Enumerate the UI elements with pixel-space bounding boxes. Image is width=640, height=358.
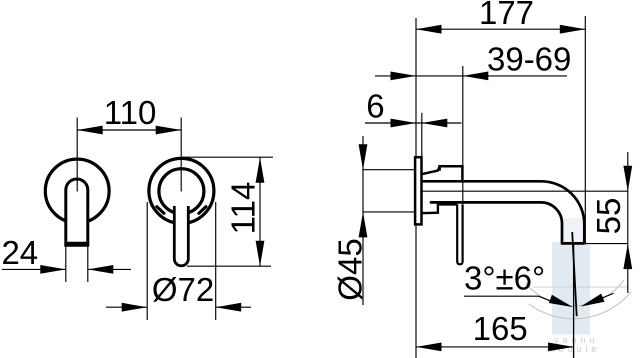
dim 165 arrow right [548,343,574,352]
watermark gray arc inner [529,292,632,319]
dim 110 arrow right [156,126,182,135]
dim 6 arrow left [391,119,417,128]
dim O45 arrow top [359,144,368,170]
centerline of left handle rosette [76,118,78,192]
spout tube bottom line [430,201,541,204]
dim 24 line right [88,268,131,270]
spout stem (front view) [174,206,188,266]
svg-text:165: 165 [473,310,528,347]
svg-text:55: 55 [590,198,627,235]
spout rosette outer circle (front view) [149,158,214,223]
extension line wall surface x416 [415,18,417,358]
spout outer bend [541,181,584,243]
extension line handle front x463 [462,66,464,204]
extension line spout outer end x585 [584,16,586,245]
dim O72 extension right [215,202,217,320]
dim 114 line [259,157,261,266]
dim 177 line [416,28,585,30]
watermark blue band (main) [552,242,590,335]
svg-text:6: 6 [366,87,384,124]
dim O45 line [362,136,364,305]
angle leader line [539,296,557,303]
dim O72 line left [106,306,147,308]
dim O72 arrow right [216,303,242,312]
dim 110 line [77,129,181,131]
dim 39-69 arrow left [391,72,417,81]
spout inner bend [541,202,562,243]
watermark gray horizontal line [533,286,629,288]
dim 24 line left [2,268,66,270]
wall plate (side view) [415,157,421,224]
dim 24 arrow left [40,265,66,274]
dim 55 extension bottom [584,243,628,245]
dim 6 line [365,122,462,124]
dim 6 arrow right [422,119,448,128]
centerline segment inside handle lever [76,180,78,192]
watermark gray arc outer [525,280,623,306]
dim O72 arrow left [122,303,148,312]
dim O72 extension left [146,202,148,320]
svg-text:24: 24 [1,234,38,271]
handle lever end cap line [66,242,88,245]
spout rosette inner circle (front view) [159,169,204,214]
dim 24 extension left [65,246,67,282]
handle lever (front view) [66,179,88,245]
dim 114 extension bottom [187,265,271,267]
watermark blue band (inside spout) [563,218,583,242]
extension line plate front x422 [421,113,423,157]
set screw tick left [157,207,164,214]
centerline of right spout rosette [180,118,182,192]
handle base slope (side view) [422,204,458,213]
spout centerline (also 55 top extension) [422,190,628,192]
angle arrow right shaft [601,293,614,298]
dim 177 arrow left [416,25,442,34]
dim 55 arrow bottom [623,244,632,270]
svg-text:110: 110 [104,94,157,131]
dim 165 arrow left [416,343,442,352]
dim 24 arrow right [88,265,114,274]
svg-text:Ø45: Ø45 [331,238,368,300]
svg-text:114: 114 [225,182,262,235]
svg-text:39-69: 39-69 [487,41,571,78]
dim 55 line [627,152,629,293]
angle arrow left [549,295,573,307]
svg-text:Ø72: Ø72 [152,271,214,308]
spout base slope (side view) [422,166,440,174]
svg-text:177: 177 [479,0,534,31]
dim 165 line [416,346,574,348]
spout collar (side view) [440,166,463,181]
dim 110 arrow left [77,126,103,135]
spout axis extension line x574 [573,244,575,358]
dim O45 extension bottom [363,211,416,213]
set screw tick right [199,207,206,214]
dim O45 extension top [363,169,416,171]
angle arrow right [581,294,605,307]
dim 24 extension right [87,246,89,282]
handle lever bar (side view) [457,204,462,264]
dim 39-69 arrow right [463,72,489,81]
tilted spout axis line 3deg [572,232,577,316]
dim O45 arrow bottom [359,212,368,238]
svg-text:3°±6°: 3°±6° [464,259,545,296]
dim 114 extension top [181,156,273,158]
handle rosette circle (front view) [45,159,109,223]
dim 114 arrow bottom [256,241,265,267]
dim 177 arrow right [560,25,586,34]
dim 114 arrow top [256,157,265,183]
dim 39-69 line [375,75,567,77]
spout tube top line [422,180,542,183]
dim O72 line right [216,306,251,308]
angle leader underline [464,295,539,297]
dim 55 arrow top [623,166,632,192]
spout outlet bottom [561,242,585,245]
